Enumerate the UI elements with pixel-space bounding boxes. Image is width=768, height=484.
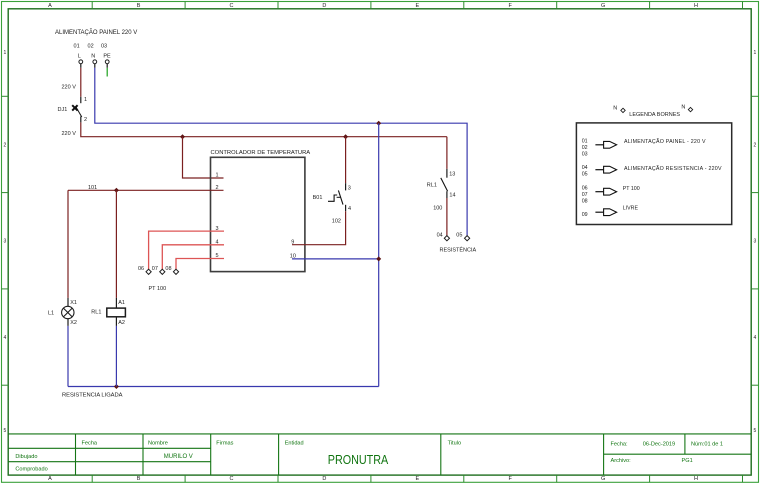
svg-text:5: 5 (754, 428, 757, 434)
junction node at 378.7,123.2 (376, 121, 381, 126)
svg-text:H: H (694, 476, 698, 482)
svg-text:A2: A2 (118, 320, 125, 326)
breaker DJ1 lever (76, 106, 82, 117)
svg-text:X1: X1 (70, 300, 77, 306)
legend entry 1 arrow (595, 141, 616, 148)
wire controller pin 10 blue (292, 258, 379, 260)
svg-text:01: 01 (582, 138, 588, 144)
terminal diamond 06 (146, 269, 151, 274)
terminal circle L (79, 60, 83, 64)
svg-text:02: 02 (88, 44, 94, 50)
svg-text:03: 03 (101, 44, 107, 50)
svg-text:Núm:01 de 1: Núm:01 de 1 (691, 441, 723, 447)
svg-text:Titulo: Titulo (448, 440, 461, 446)
lamp L1 top stub (67, 298, 69, 306)
svg-text:05: 05 (456, 232, 462, 238)
wire contact to terminal 04 (446, 198, 448, 236)
svg-text:08: 08 (165, 266, 171, 272)
svg-text:Entidad: Entidad (285, 440, 304, 446)
column letters top (48, 3, 698, 9)
svg-text:A1: A1 (118, 300, 125, 306)
terminal diamond 05 (465, 236, 470, 241)
svg-text:Firmas: Firmas (216, 440, 233, 446)
svg-text:G: G (601, 476, 605, 482)
svg-text:MURILO V: MURILO V (164, 454, 193, 460)
wire PT100 sensor 3 to pin 5 (176, 259, 224, 270)
terminal L black stub (80, 64, 82, 68)
svg-text:PT 100: PT 100 (623, 186, 640, 192)
legend box (576, 123, 731, 225)
breaker DJ1 pin 2 stub (80, 116, 82, 122)
wire net 101 down to lamp (67, 190, 69, 298)
junction node at 345.6,136.7 (343, 134, 348, 139)
lamp L1 (62, 306, 74, 318)
row numbers left (4, 50, 7, 434)
wire net 101 down to relay coil (115, 190, 117, 298)
legend entry 4 arrow (595, 209, 616, 216)
terminal diamond 07 (160, 269, 165, 274)
svg-text:100: 100 (433, 205, 442, 211)
svg-text:D: D (322, 476, 326, 482)
relay coil RL1 bottom stub (115, 317, 117, 326)
svg-text:ALIMENTAÇÃO RESISTENCIA - 220V: ALIMENTAÇÃO RESISTENCIA - 220V (624, 165, 722, 172)
title block grid (8, 434, 751, 475)
svg-text:102: 102 (332, 218, 341, 224)
wire lamp to neutral (67, 326, 69, 387)
svg-text:2: 2 (84, 117, 87, 123)
svg-text:1: 1 (4, 50, 7, 56)
svg-text:RESISTÊNCIA: RESISTÊNCIA (440, 245, 477, 253)
row ruler ticks right (751, 96, 758, 385)
terminal circle N (93, 60, 97, 64)
lamp L1 bottom stub (67, 319, 69, 326)
svg-text:1: 1 (84, 97, 87, 103)
svg-text:4: 4 (754, 335, 757, 341)
svg-text:5: 5 (4, 428, 7, 434)
svg-text:D: D (322, 3, 326, 9)
svg-text:Comprobado: Comprobado (15, 467, 47, 473)
wire PT100 sensor 2 to pin 4 (162, 245, 224, 269)
svg-text:07: 07 (582, 192, 588, 198)
svg-text:4: 4 (348, 206, 351, 212)
contact RL1 lever (441, 178, 448, 191)
svg-text:07: 07 (152, 266, 158, 272)
wire neutral drop vertical (378, 123, 380, 386)
svg-text:DJ1: DJ1 (58, 107, 68, 113)
svg-text:RL1: RL1 (91, 310, 101, 316)
svg-text:3: 3 (348, 185, 351, 191)
wire B01 to controller pin 9 (292, 211, 346, 245)
svg-text:3: 3 (4, 239, 7, 245)
svg-text:LIVRE: LIVRE (623, 205, 639, 211)
svg-text:Archivo:: Archivo: (611, 458, 632, 464)
svg-text:3: 3 (754, 239, 757, 245)
legend entry 2 arrow (595, 166, 616, 173)
terminal diamond 08 (173, 269, 178, 274)
svg-text:101: 101 (88, 185, 97, 191)
svg-text:04: 04 (582, 165, 588, 171)
switch B01 pin 3 stub (345, 183, 347, 190)
switch B01 actuator link (337, 196, 341, 198)
svg-text:1: 1 (216, 173, 219, 179)
wire PE green stub (106, 68, 108, 77)
svg-text:RL1: RL1 (427, 182, 437, 188)
svg-text:01: 01 (74, 44, 80, 50)
svg-text:PT 100: PT 100 (149, 286, 167, 292)
svg-text:13: 13 (449, 172, 455, 178)
svg-text:06-Dec-2019: 06-Dec-2019 (643, 441, 675, 447)
svg-text:E: E (415, 3, 419, 9)
svg-text:N: N (91, 54, 95, 60)
svg-text:H: H (694, 3, 698, 9)
svg-text:9: 9 (291, 240, 294, 246)
breaker DJ1 contact cross (72, 105, 77, 110)
row ruler ticks left (2, 96, 9, 385)
svg-text:PRONUTRA: PRONUTRA (328, 452, 389, 467)
svg-text:3: 3 (216, 226, 219, 232)
svg-text:Dibujado: Dibujado (15, 454, 37, 460)
svg-text:Fecha:: Fecha: (611, 441, 629, 447)
svg-text:CONTROLADOR DE TEMPERATURA: CONTROLADOR DE TEMPERATURA (211, 150, 311, 156)
wire L phase down to breaker (80, 68, 82, 97)
svg-text:LEGENDA BORNES: LEGENDA BORNES (629, 112, 680, 118)
junction node at 116.4,190.3 (114, 188, 119, 193)
switch B01 pin 4 stub (345, 205, 347, 211)
svg-text:2: 2 (4, 142, 7, 148)
svg-text:N: N (681, 105, 685, 111)
svg-text:E: E (415, 476, 419, 482)
controller box U1 (211, 157, 305, 271)
wire phase down to contact RL1 (446, 137, 448, 169)
terminal circle PE (105, 60, 109, 64)
breaker DJ1 pin 1 stub (80, 97, 82, 103)
svg-text:A: A (48, 476, 52, 482)
svg-text:N: N (613, 106, 617, 112)
terminal diamond 04 (444, 236, 449, 241)
junction node at 116.4,386.5 (114, 384, 119, 389)
column letters bottom (48, 476, 698, 482)
svg-text:03: 03 (582, 151, 588, 157)
svg-text:PE: PE (103, 54, 111, 60)
svg-text:Nombre: Nombre (148, 440, 168, 446)
svg-text:04: 04 (437, 232, 443, 238)
svg-text:02: 02 (582, 145, 588, 151)
relay coil RL1 (107, 308, 126, 317)
svg-text:ALIMENTAÇÃO PAINEL - 220 V: ALIMENTAÇÃO PAINEL - 220 V (624, 138, 706, 145)
svg-text:10: 10 (290, 254, 296, 260)
svg-text:B: B (137, 3, 141, 9)
svg-text:C: C (230, 3, 234, 9)
svg-text:L1: L1 (48, 310, 54, 316)
legend entry 3 arrow (595, 188, 616, 195)
contact RL1 pin 13 stub (446, 169, 448, 178)
svg-text:5: 5 (216, 253, 219, 259)
svg-text:2: 2 (754, 142, 757, 148)
row numbers right (754, 50, 757, 434)
svg-text:C: C (230, 476, 234, 482)
wire net 101 to pin 2 (68, 189, 224, 191)
svg-text:05: 05 (582, 172, 588, 178)
wire PT100 sensor 1 to pin 3 (149, 231, 224, 269)
svg-text:B: B (137, 476, 141, 482)
contact RL1 pin 14 stub (446, 191, 448, 198)
svg-text:08: 08 (582, 199, 588, 205)
junction node at 182.5,136.7 (180, 134, 185, 139)
wire branch to switch B01 (345, 137, 347, 184)
wire neutral bottom run (68, 386, 379, 388)
switch B01 lever (338, 190, 343, 204)
column ruler ticks top (92, 2, 742, 9)
terminal PE black stub (106, 64, 108, 68)
wire coil to neutral (115, 326, 117, 387)
svg-text:14: 14 (449, 192, 455, 198)
svg-text:X2: X2 (70, 320, 77, 326)
terminal N black stub (94, 64, 96, 68)
svg-text:220 V: 220 V (62, 131, 77, 137)
svg-text:09: 09 (582, 212, 588, 218)
svg-text:ALIMENTAÇÃO PAINEL 220 V: ALIMENTAÇÃO PAINEL 220 V (55, 29, 137, 36)
svg-text:L: L (78, 54, 81, 60)
svg-text:A: A (48, 3, 52, 9)
relay coil RL1 top stub (115, 298, 117, 308)
svg-text:Fecha: Fecha (82, 440, 98, 446)
svg-text:RESISTENCIA LIGADA: RESISTENCIA LIGADA (62, 393, 123, 399)
svg-text:1: 1 (754, 50, 757, 56)
svg-text:2: 2 (216, 185, 219, 191)
junction node at 378.7,258.9 (376, 256, 381, 261)
svg-text:G: G (601, 3, 605, 9)
switch B01 actuator (328, 195, 337, 201)
svg-text:PG1: PG1 (682, 458, 693, 464)
svg-text:4: 4 (216, 240, 219, 246)
svg-text:4: 4 (4, 335, 7, 341)
svg-text:220 V: 220 V (62, 84, 77, 90)
wire neutral blue bus (95, 68, 467, 236)
wire phase main red bus (81, 122, 447, 136)
svg-text:B01: B01 (313, 195, 323, 201)
svg-text:06: 06 (582, 186, 588, 192)
column ruler ticks bottom (92, 475, 742, 482)
lamp L1 cross (63, 308, 72, 317)
svg-text:06: 06 (138, 266, 144, 272)
wire branch to controller pin 1 (183, 137, 224, 178)
